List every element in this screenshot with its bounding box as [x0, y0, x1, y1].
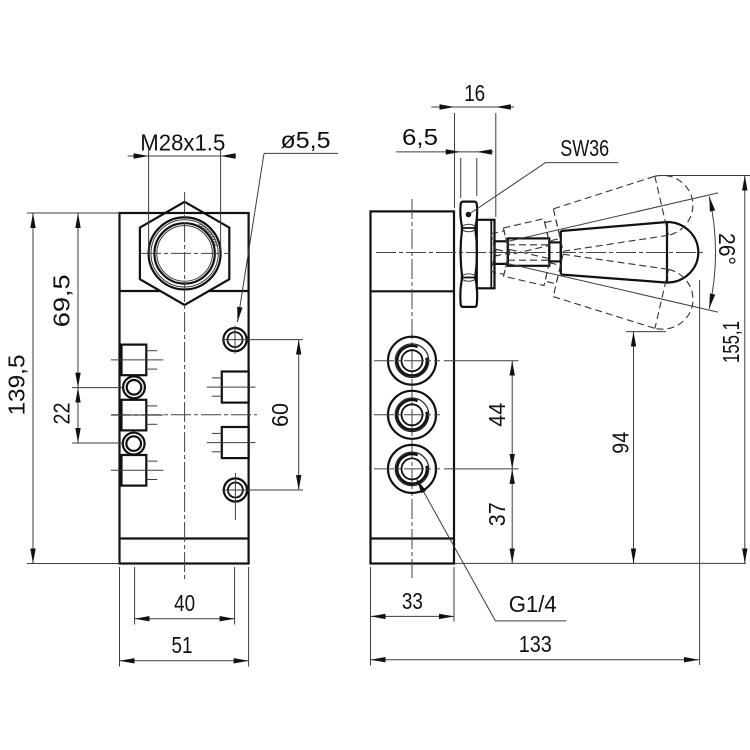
lever swung down position (dashed)	[487, 231, 699, 336]
thread run-out ticks	[197, 225, 201, 226]
swing centerline up	[505, 193, 718, 242]
valve body front view outline	[120, 213, 249, 564]
boss vertical centerline	[184, 192, 186, 579]
svg-text:26°: 26°	[714, 233, 740, 265]
mounting flange line front view	[120, 537, 249, 539]
side view vertical centerline	[411, 199, 413, 578]
nut chamfer wedges	[461, 221, 463, 235]
side port P3 edge view with ticks	[122, 455, 147, 486]
left hole row2 circles	[123, 433, 145, 455]
washer	[477, 220, 495, 288]
dimension 51	[120, 660, 249, 662]
swing centerline down	[505, 263, 718, 312]
lever swung up position (dashed)	[487, 169, 699, 274]
thread outer circle	[149, 217, 221, 289]
extension line bottom edge left	[27, 563, 120, 565]
side port P2 edge view with ticks	[122, 400, 147, 431]
svg-text:60: 60	[267, 403, 293, 427]
boss horizontal centerline	[141, 252, 228, 254]
boss shoulder line side view	[371, 290, 455, 292]
dimension 155,1	[744, 176, 746, 564]
valve body side view outline	[371, 211, 455, 563]
dimension 133	[371, 659, 700, 661]
port 3 centerline	[374, 468, 440, 470]
dimension 37	[511, 469, 513, 564]
svg-text:40: 40	[174, 590, 195, 616]
svg-text:6,5: 6,5	[402, 124, 438, 150]
extension lines M28	[148, 150, 150, 251]
leader ø5,5	[264, 152, 338, 154]
svg-text:155,1: 155,1	[718, 321, 744, 363]
dimension 16	[431, 106, 514, 108]
leader G1/4	[417, 479, 496, 621]
svg-text:44: 44	[484, 403, 510, 427]
thread minor circle	[154, 223, 214, 283]
dimension 6,5	[396, 151, 493, 153]
svg-text:ø5,5: ø5,5	[281, 127, 331, 153]
dimension 139,5	[32, 213, 34, 564]
lever axis centerline	[376, 252, 704, 254]
svg-text:M28x1.5: M28x1.5	[140, 130, 225, 156]
side port P1 edge view with ticks	[122, 345, 147, 376]
dimension 69,5	[77, 213, 79, 388]
rear port A edge view with ticks	[222, 372, 249, 403]
extension line body right bottom	[453, 567, 455, 622]
hand lever (stem, cone, knob)	[495, 222, 699, 283]
svg-text:139,5: 139,5	[4, 355, 30, 416]
svg-text:22: 22	[49, 403, 75, 425]
angle dimension arc 26	[709, 196, 715, 308]
port 1 circles G1/4	[388, 337, 436, 385]
hex nut SW36 outline	[460, 202, 477, 307]
extension line bottom hole	[222, 489, 303, 491]
extension line hole row2	[72, 442, 123, 444]
svg-text:16: 16	[464, 80, 485, 106]
nut facet lines	[461, 227, 477, 229]
svg-text:94: 94	[608, 432, 634, 454]
extension line top edge left	[27, 212, 120, 214]
svg-text:37: 37	[484, 502, 510, 526]
dimension line M28x1.5	[128, 155, 236, 157]
boss shoulder line left segment	[120, 290, 161, 292]
extension lines 51	[119, 567, 121, 667]
dimension 44	[511, 361, 513, 469]
extension line lever tip	[699, 280, 701, 665]
mounting flange line side view	[371, 537, 455, 539]
rear port B edge view with ticks	[222, 427, 249, 458]
bore circle	[157, 226, 213, 282]
port 1 centerline	[374, 360, 440, 362]
port 2 centerline	[374, 414, 440, 416]
dimension 60	[298, 340, 300, 490]
extension lines 6,5	[460, 158, 462, 198]
dimension 33	[371, 615, 455, 617]
dimension 94	[633, 332, 635, 564]
extension line top hole	[222, 339, 303, 341]
extension line hole row1	[72, 387, 123, 389]
extension line port3 row	[444, 468, 519, 470]
leader SW36	[466, 212, 472, 218]
svg-text:SW36: SW36	[560, 135, 609, 161]
body horizontal centerline	[111, 414, 257, 416]
dimension 22	[77, 388, 79, 443]
extension line lever bottom plane	[626, 331, 666, 333]
thread hidden lines on stem	[508, 244, 549, 246]
dimension 40	[135, 618, 235, 620]
mounting hole bottom (ø5.5)	[224, 478, 247, 501]
extension lines 40	[134, 567, 136, 625]
extension line body left bottom	[370, 567, 372, 666]
svg-text:69,5: 69,5	[49, 274, 75, 327]
hexagonal boss M28	[140, 202, 229, 305]
svg-text:51: 51	[172, 632, 193, 658]
port 2 circles G1/4	[388, 391, 436, 439]
port 3 circles G1/4	[388, 445, 436, 493]
boss shoulder line right segment	[208, 290, 248, 292]
left hole row1 circles	[123, 376, 145, 398]
extension line base plane	[455, 562, 746, 564]
svg-text:33: 33	[402, 588, 423, 614]
thread chamfer circle	[151, 220, 218, 287]
extension line port1 row	[444, 360, 519, 362]
svg-text:133: 133	[519, 631, 552, 657]
nut facet arcs	[462, 224, 475, 281]
svg-text:G1/4: G1/4	[509, 591, 557, 617]
mounting hole top (ø5.5)	[223, 328, 246, 351]
extension lines 16	[454, 113, 456, 208]
extension line lever top plane	[659, 175, 750, 177]
